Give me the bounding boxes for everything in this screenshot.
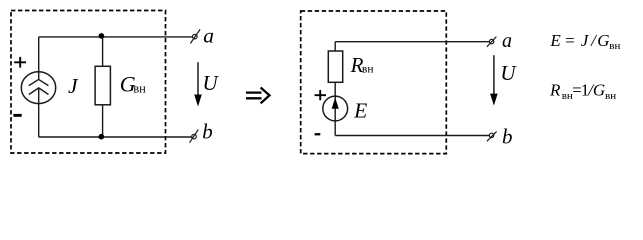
equation Rвн = 1/Gвн bbox=[549, 80, 616, 102]
terminal b (right) bbox=[487, 131, 497, 141]
svg-text:вн: вн bbox=[605, 90, 616, 102]
current source J circle bbox=[21, 72, 55, 104]
voltage arrow U (left) bbox=[194, 62, 202, 106]
label Rвн bbox=[350, 53, 374, 77]
svg-text:=: = bbox=[565, 31, 575, 50]
wire: Gвн lower stem bbox=[102, 105, 104, 137]
svg-text:a: a bbox=[502, 30, 512, 52]
wire: current source branch lower stem bbox=[38, 88, 40, 137]
svg-text:J: J bbox=[68, 74, 79, 98]
junction node top bbox=[99, 33, 105, 39]
conductance Gвн resistor body bbox=[95, 66, 110, 105]
label Gвн bbox=[120, 71, 146, 96]
terminal a (right) bbox=[487, 37, 497, 47]
svg-text:вн: вн bbox=[609, 40, 620, 52]
wire: left circuit bottom wire bbox=[39, 136, 192, 138]
junction node bottom bbox=[99, 134, 105, 140]
svg-text:a: a bbox=[203, 24, 214, 48]
svg-text:b: b bbox=[202, 119, 213, 143]
wire: left circuit top wire bbox=[39, 36, 193, 38]
wire: right circuit top wire bbox=[335, 41, 489, 43]
plus polarity of J bbox=[14, 57, 26, 68]
svg-text:R: R bbox=[549, 80, 561, 99]
voltage arrow U (right) bbox=[490, 55, 498, 105]
wire: stem between Rвн and E source, through E, to bottom wire bbox=[334, 82, 336, 135]
minus polarity of J bbox=[13, 114, 21, 117]
left network dashed boundary box bbox=[11, 11, 166, 154]
svg-text:U: U bbox=[500, 61, 517, 85]
EMF source E arrowhead bbox=[332, 98, 339, 109]
resistor Rвн body bbox=[328, 51, 342, 82]
svg-text:G: G bbox=[593, 80, 605, 99]
implication arrow (double arrow) bbox=[246, 88, 270, 104]
svg-text:E: E bbox=[549, 31, 561, 50]
equation E = J/Gвн bbox=[549, 31, 620, 52]
wire: current source branch upper stem bbox=[38, 37, 40, 80]
svg-text:G: G bbox=[597, 31, 609, 50]
current source J lower chevron bbox=[29, 88, 49, 95]
svg-text:вн: вн bbox=[133, 81, 146, 95]
plus polarity of E bbox=[315, 90, 327, 100]
wire: Gвн upper stem bbox=[102, 37, 104, 66]
EMF source E circle bbox=[323, 96, 348, 121]
wire: right branch upper stem bbox=[334, 42, 336, 51]
minus polarity of E bbox=[315, 133, 321, 135]
right network dashed boundary box bbox=[301, 11, 447, 154]
svg-text:E: E bbox=[353, 99, 367, 123]
terminal a (left) bbox=[190, 29, 200, 43]
current source J upper chevron bbox=[29, 79, 49, 85]
svg-text:вн: вн bbox=[362, 63, 374, 75]
terminal b (left) bbox=[190, 129, 199, 142]
svg-text:U: U bbox=[203, 71, 220, 95]
svg-text:b: b bbox=[502, 125, 513, 149]
wire: right circuit bottom wire bbox=[335, 135, 489, 137]
